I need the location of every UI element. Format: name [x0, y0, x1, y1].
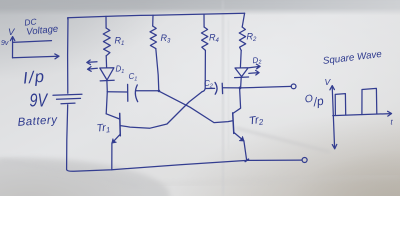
input axis: 9v DC level line: [13, 41, 52, 43]
output square wave: [335, 88, 377, 115]
LED D1: [100, 68, 114, 80]
wire: R1 top lead: [105, 16, 107, 28]
resistor R3: [150, 26, 157, 49]
wire: cross-couple C1/R3 node to Tr2 base: [159, 91, 233, 122]
wire: C1 right lead to R3 node: [136, 90, 159, 92]
wire: R2 to D2: [239, 50, 242, 67]
junction: D2/C2/collector node: [239, 87, 242, 90]
wire: cross-couple R4/C2 node to Tr1 base: [120, 92, 202, 129]
label: DC Voltage: [24, 14, 59, 38]
svg-text:I/p: I/p: [22, 68, 47, 88]
junction: C1/R3 node: [158, 90, 161, 93]
svg-text:9v: 9v: [1, 40, 9, 47]
wire: R4 top lead: [203, 14, 205, 27]
resistor R2: [239, 27, 246, 50]
battery B1 (9V): [53, 94, 82, 95]
output axis: V vertical, arrows both ends: [332, 86, 334, 148]
terminal: output lower: [302, 158, 307, 163]
wire: R2 top lead: [242, 13, 244, 27]
capacitor C1: [127, 84, 129, 101]
capacitor C2: [205, 87, 214, 89]
LED D1 emission arrows: [87, 60, 97, 65]
wire: R4 bottom lead: [202, 50, 205, 91]
LED D2 emission arrows: [249, 64, 260, 69]
transistor Tr1: [106, 114, 119, 119]
resistor R4: [201, 27, 208, 50]
LED D2: [235, 68, 248, 77]
wire: bottom ground rail: [67, 160, 302, 171]
input axis: time axis with right arrow: [13, 56, 59, 58]
transistor Tr2: [233, 113, 234, 133]
wire: D1 node down to Tr1 collector: [106, 92, 107, 114]
wire: R3 top lead: [152, 15, 154, 26]
wire: output upper lead: [240, 86, 291, 88]
wire: battery top lead: [67, 18, 69, 93]
junction: emitter Tr2 on rail: [245, 159, 248, 161]
terminal: output upper: [291, 84, 296, 89]
wire: R1 to D1: [105, 56, 107, 68]
svg-text:9V: 9V: [30, 91, 49, 111]
wire: top supply rail: [68, 13, 245, 19]
wire: R3 bottom lead: [156, 49, 159, 91]
input axis: V vertical with up arrow: [12, 37, 14, 58]
wire: battery bottom lead: [67, 105, 68, 170]
resistor R1: [103, 28, 110, 56]
wire: C1 left lead from D1 node: [107, 91, 127, 93]
output axis: time axis with right arrow: [333, 114, 391, 116]
